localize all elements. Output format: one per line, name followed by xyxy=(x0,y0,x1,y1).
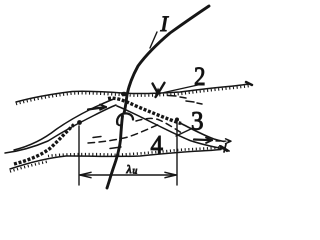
leader line for label I xyxy=(150,32,157,48)
flow arrow on upper curve xyxy=(88,107,106,110)
leader line for label 2 xyxy=(164,85,200,93)
left dimension extent line xyxy=(78,126,80,185)
svg-text:2: 2 xyxy=(194,62,206,91)
thick flow arrow on right limb xyxy=(194,138,212,141)
lower channel-edge curve (left limb) xyxy=(5,105,116,153)
svg-text:3: 3 xyxy=(191,107,204,136)
bottom bank hachure ticks (main part, above) xyxy=(48,147,221,156)
right dimension arrowhead xyxy=(165,172,176,177)
dot at top of right extent line xyxy=(175,118,179,122)
svg-text:4: 4 xyxy=(151,131,164,160)
main river channel curve 1 (lower reach through bend apex) xyxy=(107,116,123,188)
bottom hachure right end mark xyxy=(220,146,227,151)
channel-edge curve (right limb, inner) xyxy=(117,106,224,149)
top bank hachure ticks xyxy=(16,86,250,104)
leader line for label 3 xyxy=(176,128,193,136)
extra dash near left of alpha xyxy=(93,137,121,149)
arrowhead of leader 2 xyxy=(153,83,165,97)
dark knot where channel crosses bank line xyxy=(121,92,127,97)
inner dashed curve alpha (inside loop, lower) xyxy=(88,124,161,144)
point-bar beaded band (crest and right limb) xyxy=(108,98,181,123)
dashed arrow to the right xyxy=(216,140,229,142)
dot at top of left beaded band xyxy=(77,120,82,125)
top bank hachure right end mark xyxy=(246,82,252,85)
smooth continuation of beaded band (right limb outer curve) xyxy=(181,124,224,142)
end cross mark of inner right curve xyxy=(221,144,229,152)
main river channel curve 1 (upper reach) xyxy=(124,6,209,113)
point-bar beaded band (left limb) xyxy=(14,125,74,165)
dashed old-bank line below top hachure (row 2) xyxy=(186,101,202,104)
dimension line lambda xyxy=(80,174,176,176)
bottom bank hachure ticks (left part, below) xyxy=(10,162,48,172)
right dimension extent line xyxy=(176,121,178,185)
upper channel-edge curve (left limb) xyxy=(14,99,114,150)
top bank hachure line xyxy=(16,84,250,102)
crescent scour hook at bend apex xyxy=(117,113,133,124)
bottom bank hachure line xyxy=(10,150,221,170)
dashed old-bank line below top hachure (row 1) xyxy=(168,96,186,99)
left dimension arrowhead xyxy=(80,172,91,177)
inner dashed curve beta (inside loop, upper right) xyxy=(136,118,184,134)
